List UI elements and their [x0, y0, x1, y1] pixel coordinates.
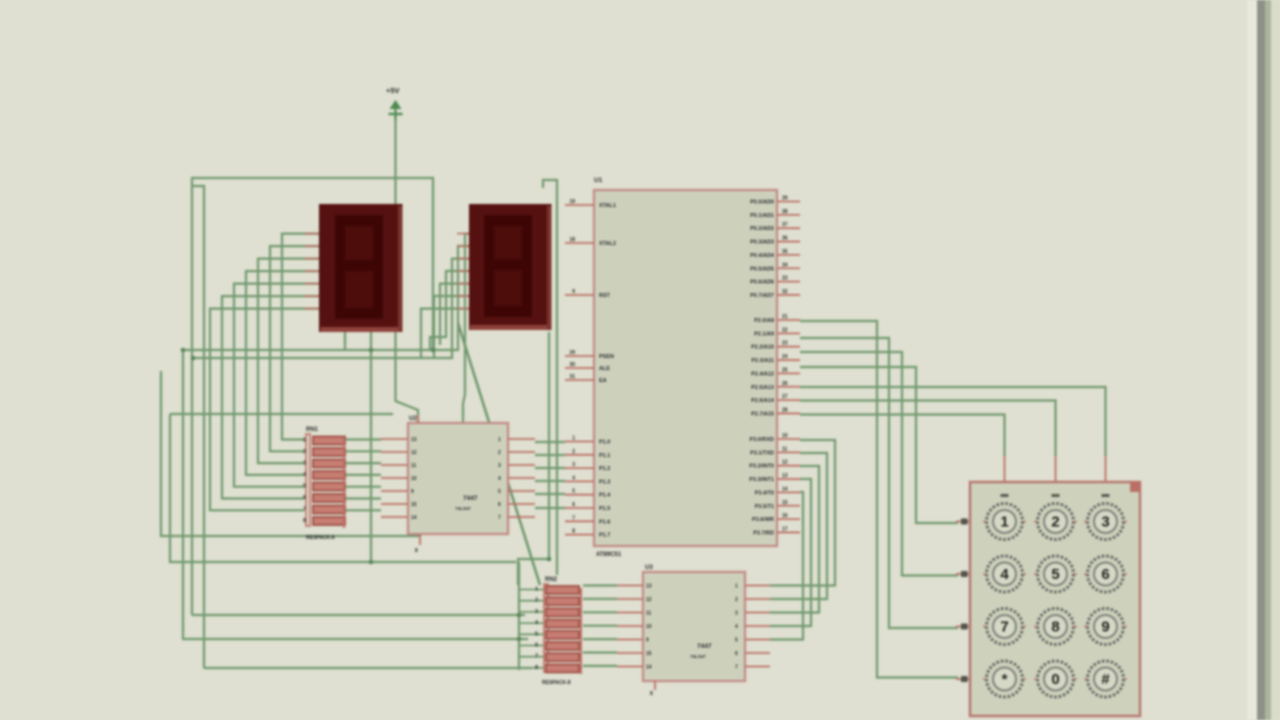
svg-text:P2.4/A12: P2.4/A12 [751, 371, 774, 377]
U2 output pin 13 [381, 438, 408, 440]
U1 pin 33 P0.6 [777, 281, 800, 283]
U2 output pin 11 [381, 464, 408, 466]
svg-text:P0.3/AD3: P0.3/AD3 [750, 240, 774, 246]
svg-text:26: 26 [782, 381, 788, 387]
svg-text:P3.3/INT1: P3.3/INT1 [749, 477, 774, 483]
svg-text:7447: 7447 [463, 495, 478, 502]
wire display1 segment f to RN1 [222, 296, 319, 498]
wire RN2 pin 1 stub [519, 589, 544, 591]
wire U2 to U1 P1.0 [535, 441, 565, 443]
U2 GND pin 8 [419, 534, 421, 545]
svg-text:3: 3 [303, 461, 306, 467]
decoder IC U2 7447 [408, 416, 508, 534]
U3 input pin 5 [745, 639, 770, 641]
U2 VCC pin 16 [417, 415, 419, 423]
svg-text:3: 3 [535, 609, 538, 615]
U2 input pin 1 [508, 438, 535, 440]
svg-text:28: 28 [782, 407, 788, 413]
wire U2 to U1 P1.1 [535, 454, 565, 456]
U3 input pin 1 [745, 585, 770, 587]
svg-text:74LS47: 74LS47 [690, 654, 706, 659]
display2 pin d [457, 270, 469, 272]
svg-text:13: 13 [782, 473, 788, 479]
window right margin [1271, 0, 1280, 720]
svg-text:XTAL1: XTAL1 [599, 203, 616, 209]
wire display1 segment c to RN1 [258, 259, 319, 464]
svg-text:P1.2: P1.2 [599, 466, 610, 472]
U1 pin 15 P3.5 [777, 505, 800, 507]
U2 output pin 9 [381, 490, 408, 492]
junction [547, 557, 552, 562]
svg-text:+5V: +5V [386, 86, 400, 95]
U1 pin 37 P0.2 [777, 227, 800, 229]
keypad column 3 stub [1105, 456, 1107, 482]
svg-text:22: 22 [782, 327, 788, 333]
display2 pin a [457, 233, 469, 235]
U1 pin 30 ALE [565, 367, 594, 369]
wire RN2 to U3 row 2 [583, 598, 617, 600]
wire RN2 pin 4 stub [519, 622, 544, 624]
U1 pin 23 P2.2 [777, 346, 800, 348]
svg-text:RESPACK-8: RESPACK-8 [542, 680, 571, 686]
wire U1 P3.1 to U3 [770, 453, 827, 599]
svg-text:9: 9 [1101, 619, 1109, 636]
wire U1 P2.2 to keypad row 3 [800, 352, 958, 576]
keypad column 1 stub [1004, 456, 1006, 482]
svg-text:10: 10 [646, 624, 652, 630]
wire U2 to U1 P1.5 [535, 507, 565, 509]
wire RN2 to U3 row 4 [583, 625, 617, 627]
wire RN1 to U2 pin row 7 [346, 509, 381, 511]
svg-text:35: 35 [782, 249, 788, 255]
scrollbar sage band [1265, 0, 1271, 720]
wire display2 top loop down right side [543, 180, 557, 575]
svg-text:P0.7/AD7: P0.7/AD7 [750, 293, 774, 299]
keypad button 7 [983, 609, 1026, 645]
svg-text:2: 2 [1051, 514, 1059, 531]
U3 output pin 11 [617, 612, 643, 614]
svg-text:38: 38 [782, 209, 788, 215]
svg-text:24: 24 [782, 354, 788, 360]
svg-text:8: 8 [415, 548, 418, 554]
svg-text:P2.2/A10: P2.2/A10 [751, 345, 774, 351]
svg-text:5: 5 [535, 631, 538, 637]
wire RN1 to U2 pin row 6 [346, 497, 381, 499]
7-segment display DISP1 [319, 204, 403, 332]
wire RN2 pin 2 stub [519, 600, 544, 602]
wire U1 P3.3 to U3 [770, 479, 811, 626]
svg-text:P1.6: P1.6 [599, 519, 610, 525]
wire display2 seg f tap [434, 296, 469, 358]
svg-text:7: 7 [1000, 619, 1008, 636]
svg-text:1: 1 [498, 437, 501, 443]
U2 output pin 12 [381, 451, 408, 453]
svg-text:1: 1 [1000, 514, 1008, 531]
svg-text:0: 0 [1051, 671, 1059, 688]
wire RN2 pin 8 stub [519, 667, 544, 669]
wire RN2 to U3 row 7 [583, 665, 617, 667]
wire U2 to U1 P1.2 [535, 467, 565, 469]
svg-text:P0.4/AD4: P0.4/AD4 [750, 253, 775, 259]
wire horizontal bus y414 [170, 413, 393, 415]
U2 output pin 7 [381, 516, 408, 518]
display2 pin e [457, 283, 469, 285]
U1 pin 25 P2.4 [777, 372, 800, 374]
svg-text:15: 15 [646, 651, 652, 657]
svg-text:P0.0/AD0: P0.0/AD0 [750, 200, 774, 206]
keypad button 2 [1034, 504, 1077, 540]
svg-text:8: 8 [572, 529, 575, 535]
U3 output pin 13 [617, 585, 643, 587]
wire display1 segment b to RN1 [270, 246, 319, 451]
wire display1 segment a to RN1 [282, 234, 319, 440]
U1 pin 21 P2.0 [777, 319, 800, 321]
svg-text:P2.7/A15: P2.7/A15 [751, 411, 774, 417]
svg-text:P3.2/INT0: P3.2/INT0 [749, 464, 774, 470]
keypad row 1 pin mark [961, 519, 968, 525]
wire RN1 to U2 pin row 4 [346, 474, 381, 476]
display2 pin b [457, 245, 469, 247]
svg-text:7: 7 [572, 515, 575, 521]
svg-text:U1: U1 [594, 177, 603, 184]
svg-text:4: 4 [735, 624, 738, 630]
U1 pin 39 P0.0 [777, 201, 800, 203]
svg-text:P0.2/AD2: P0.2/AD2 [750, 226, 774, 232]
keypad column 3 top mark [1102, 494, 1110, 497]
keypad column 2 top mark [1052, 494, 1060, 497]
junction [369, 560, 374, 565]
svg-text:P0.5/AD5: P0.5/AD5 [750, 266, 774, 272]
svg-text:P0.6/AD6: P0.6/AD6 [750, 280, 774, 286]
svg-text:14: 14 [646, 665, 652, 671]
wire RN2 pin 6 stub [519, 645, 544, 647]
wire RN2 to U3 row 5 [583, 638, 617, 640]
wire display1 segment d to RN1 [246, 271, 319, 475]
svg-text:21: 21 [782, 314, 788, 320]
wire U1 P3.0 to U3 [770, 440, 835, 586]
wire RN1 to U2 pin row 3 [346, 462, 381, 464]
wire display2 common down to RN2 [518, 332, 549, 585]
U3 GND pin 8 [654, 681, 656, 690]
wire bottom horizontal y615 [192, 614, 525, 616]
junction [369, 348, 374, 353]
resistor pack RN1 [306, 427, 345, 541]
svg-text:P3.6/WR: P3.6/WR [752, 517, 774, 523]
svg-text:9: 9 [411, 489, 414, 495]
svg-text:U2: U2 [409, 416, 417, 422]
display1 pin f [304, 295, 319, 297]
wire display1 common 2 [344, 332, 346, 350]
U2 input pin 4 [508, 477, 535, 479]
U1 pin 19 XTAL1 [565, 204, 594, 206]
keypad row 4 stub [956, 678, 970, 680]
wire U1 P3.2 to U3 [770, 466, 819, 613]
display1 pin b [304, 245, 319, 247]
keypad row 3 pin mark [961, 624, 968, 630]
svg-text:23: 23 [782, 341, 788, 347]
keypad row 1 stub [956, 521, 970, 523]
U2 output pin 10 [381, 477, 408, 479]
U1 pin 2 P1.1 [565, 454, 594, 456]
wire U1 P2.1 to keypad row 2 [800, 338, 958, 628]
svg-text:14: 14 [411, 515, 417, 521]
wire RN1 to U2 pin row 2 [346, 450, 381, 452]
svg-text:74LS47: 74LS47 [455, 506, 471, 511]
U1 pin 16 P3.6 [777, 518, 800, 520]
svg-text:5: 5 [572, 489, 575, 495]
keypad 3x4 [970, 481, 1140, 716]
U3 input pin 6 [745, 652, 770, 654]
svg-text:4: 4 [498, 476, 501, 482]
U2 input pin 3 [508, 464, 535, 466]
U3 input pin 2 [745, 598, 770, 600]
svg-text:11: 11 [411, 463, 417, 469]
svg-text:10: 10 [411, 476, 417, 482]
svg-text:12: 12 [411, 450, 417, 456]
keypad button 4 [983, 556, 1026, 592]
keypad column 2 stub [1055, 456, 1057, 482]
svg-text:12: 12 [782, 460, 788, 466]
svg-text:P3.1/TXD: P3.1/TXD [750, 450, 774, 456]
7-segment display DISP2 [469, 204, 552, 330]
wire RN2 pin 7 stub [519, 656, 544, 658]
svg-text:8: 8 [535, 665, 538, 671]
wire RN2 pin 3 stub [519, 611, 544, 613]
svg-text:5: 5 [735, 638, 738, 644]
wire U1 P2.6 to keypad column 2 [800, 401, 1056, 457]
svg-text:3: 3 [572, 462, 575, 468]
U1 pin 14 P3.4 [777, 491, 800, 493]
wire RN1 to U2 pin row 5 [346, 486, 381, 488]
svg-text:XTAL2: XTAL2 [599, 241, 616, 247]
svg-text:2: 2 [535, 598, 538, 604]
U2 input pin 7 [508, 516, 535, 518]
U1 pin 26 P2.5 [777, 386, 800, 388]
svg-text:P3.0/RXD: P3.0/RXD [750, 437, 774, 443]
svg-text:4: 4 [572, 475, 575, 481]
power symbol +5V arrow [394, 101, 396, 120]
svg-text:9: 9 [572, 289, 575, 295]
svg-text:P0.1/AD1: P0.1/AD1 [750, 213, 774, 219]
U1 pin 27 P2.6 [777, 399, 800, 401]
display1 pin c [304, 258, 319, 260]
U1 pin 10 P3.0 [777, 438, 800, 440]
svg-text:27: 27 [782, 394, 788, 400]
svg-text:6: 6 [498, 502, 501, 508]
decoder IC U3 7447 [643, 565, 745, 681]
keypad row 3 stub [956, 626, 970, 628]
svg-text:2: 2 [735, 597, 738, 603]
svg-text:P2.5/A13: P2.5/A13 [751, 385, 774, 391]
wire RN1 to U2 pin row 1 [346, 438, 381, 440]
svg-text:P1.4: P1.4 [599, 493, 611, 499]
wire RN2 left bus vertical [518, 562, 520, 670]
junction [181, 348, 186, 353]
U1 pin 5 P1.4 [565, 494, 594, 496]
wire RN2 pin 5 stub [519, 633, 544, 635]
U3 output pin 8 [617, 652, 643, 654]
svg-text:P1.7: P1.7 [599, 533, 610, 539]
U1 pin 38 P0.1 [777, 214, 800, 216]
svg-text:3: 3 [498, 463, 501, 469]
svg-text:U3: U3 [645, 565, 653, 571]
wire display2 seg c tap H2 [193, 259, 469, 358]
svg-text:2: 2 [498, 450, 501, 456]
svg-text:13: 13 [646, 584, 652, 590]
U3 output pin 9 [617, 639, 643, 641]
wire U1 P3.4 to U3 [770, 492, 803, 640]
svg-text:P2.0/A8: P2.0/A8 [754, 318, 774, 324]
wire display2 seg a down to U2 area [463, 234, 469, 423]
display2 pin g [457, 308, 469, 310]
svg-text:9: 9 [646, 638, 649, 644]
wire power +5V down to U2 VCC [396, 118, 419, 423]
svg-text:P2.6/A14: P2.6/A14 [751, 398, 775, 404]
svg-text:P1.5: P1.5 [599, 506, 610, 512]
microcontroller U1 AT89C51 [594, 177, 777, 558]
junction [517, 613, 522, 618]
wire display1 segment e to RN1 [234, 284, 319, 487]
keypad row 2 stub [956, 573, 970, 575]
svg-text:P3.4/T0: P3.4/T0 [755, 490, 774, 496]
wire U1 P2.0 to keypad row 1 [800, 321, 958, 678]
U1 pin 36 P0.3 [777, 241, 800, 243]
U1 pin 24 P2.3 [777, 359, 800, 361]
svg-text:ALE: ALE [599, 366, 610, 372]
U3 output pin 12 [617, 598, 643, 600]
svg-text:P2.1/A9: P2.1/A9 [754, 331, 774, 337]
svg-text:5: 5 [1051, 566, 1059, 583]
wire display2 seg g tap [421, 309, 469, 358]
svg-text:1: 1 [535, 587, 538, 593]
svg-text:14: 14 [782, 486, 788, 492]
wire display2 seg d tap [430, 271, 469, 350]
svg-text:8: 8 [650, 691, 653, 697]
keypad column 1 top mark [1001, 494, 1009, 497]
wire U1 P2.5 to keypad column 1 [800, 415, 1005, 457]
keypad button 3 [1084, 504, 1127, 540]
svg-text:6: 6 [572, 502, 575, 508]
svg-text:36: 36 [782, 236, 788, 242]
U1 pin 12 P3.2 [777, 465, 800, 467]
svg-text:P1.0: P1.0 [599, 440, 610, 446]
wire RN2 to U3 row 6 [583, 651, 617, 653]
svg-text:32: 32 [782, 289, 788, 295]
resistor pack RN2 [542, 577, 581, 686]
svg-text:39: 39 [782, 196, 788, 202]
svg-text:EA: EA [599, 378, 607, 384]
svg-text:RESPACK-8: RESPACK-8 [306, 535, 335, 541]
keypad button 1 [983, 504, 1026, 540]
U3 output pin 10 [617, 625, 643, 627]
svg-text:PSEN: PSEN [599, 354, 614, 360]
junction [517, 637, 522, 642]
window right edge light strip [1247, 0, 1258, 720]
U1 pin 1 P1.0 [565, 441, 594, 443]
wire display1 common down [370, 332, 372, 562]
wire top loop left/top/right [192, 178, 433, 615]
U1 pin 4 P1.3 [565, 480, 594, 482]
svg-text:37: 37 [782, 222, 788, 228]
svg-text:16: 16 [782, 513, 788, 519]
U1 pin 34 P0.5 [777, 267, 800, 269]
svg-text:1: 1 [303, 438, 306, 444]
svg-text:1: 1 [572, 436, 575, 442]
svg-text:8: 8 [1051, 619, 1059, 636]
wire diagonal display2 to RN2 [458, 323, 540, 585]
U2 input pin 6 [508, 503, 535, 505]
svg-text:17: 17 [782, 526, 788, 532]
svg-text:6: 6 [535, 643, 538, 649]
wire left vertical x170 to bottom bus [170, 414, 516, 562]
keypad button 9 [1084, 609, 1127, 645]
svg-text:13: 13 [411, 437, 417, 443]
wire RN2 to U3 row 3 [583, 611, 617, 613]
U2 input pin 5 [508, 490, 535, 492]
display1 pin d [304, 270, 319, 272]
display2 pin c [457, 258, 469, 260]
svg-text:6: 6 [303, 495, 306, 501]
svg-text:31: 31 [569, 374, 575, 380]
wire display2 seg b tap H1 [183, 246, 469, 350]
svg-text:8: 8 [303, 518, 306, 524]
svg-text:RN2: RN2 [545, 577, 558, 583]
junction [191, 356, 196, 361]
wire RN2 to U3 row 1 [583, 584, 617, 586]
U1 pin 31 EA [565, 379, 594, 381]
U1 pin 6 P1.5 [565, 507, 594, 509]
svg-text:11: 11 [646, 611, 652, 617]
svg-text:2: 2 [303, 449, 306, 455]
svg-text:3: 3 [735, 611, 738, 617]
U1 pin 17 P3.7 [777, 531, 800, 533]
U1 pin 29 PSEN [565, 355, 594, 357]
wire second left vertical [193, 186, 205, 668]
svg-text:15: 15 [782, 500, 788, 506]
U3 output pin 7 [617, 666, 643, 668]
U1 pin 13 P3.3 [777, 478, 800, 480]
U1 pin 28 P2.7 [777, 412, 800, 414]
svg-text:7447: 7447 [697, 643, 712, 650]
keypad pin1 corner mark [1130, 481, 1140, 492]
svg-text:11: 11 [782, 446, 788, 452]
display1 pin e [304, 283, 319, 285]
keypad button 5 [1034, 556, 1077, 592]
svg-text:7: 7 [498, 515, 501, 521]
U1 pin 11 P3.1 [777, 451, 800, 453]
svg-text:29: 29 [569, 350, 575, 356]
svg-text:5: 5 [303, 484, 306, 490]
svg-text:P3.7/RD: P3.7/RD [753, 530, 774, 536]
svg-text:P1.1: P1.1 [599, 453, 610, 459]
keypad button 8 [1034, 609, 1077, 645]
display1 pin g [304, 308, 319, 310]
display2 pin f [457, 295, 469, 297]
wire left vertical x183 to RN2 [183, 350, 528, 639]
U1 pin 9 RST [565, 294, 594, 296]
svg-text:2: 2 [572, 449, 575, 455]
display1 pin a [304, 233, 319, 235]
keypad button 0 [1034, 661, 1077, 697]
keypad button * [983, 661, 1026, 697]
svg-text:7: 7 [303, 507, 306, 513]
keypad row 2 pin mark [961, 571, 968, 577]
svg-text:6: 6 [1101, 566, 1109, 583]
svg-text:P2.3/A11: P2.3/A11 [751, 358, 774, 364]
svg-text:19: 19 [569, 199, 575, 205]
U1 pin 22 P2.1 [777, 332, 800, 334]
wire U1 P2.3 to keypad row 4 [800, 367, 958, 523]
